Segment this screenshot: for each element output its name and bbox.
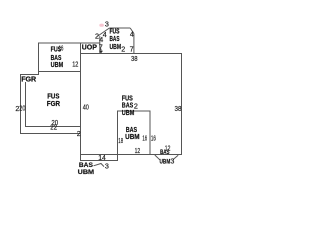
wall bottom right <box>80 153 182 155</box>
leader 7 arrow stem <box>100 49 102 51</box>
wall bay slant left <box>97 28 109 36</box>
svg-text:UBM: UBM <box>125 132 140 141</box>
wall bay slant right <box>130 28 134 34</box>
svg-text:4: 4 <box>103 30 107 39</box>
svg-text:18: 18 <box>118 136 123 145</box>
svg-text:FGR: FGR <box>21 74 37 83</box>
svg-text:16: 16 <box>59 43 64 52</box>
svg-text:4: 4 <box>99 35 103 44</box>
leader bottom right west <box>155 155 160 160</box>
svg-text:12: 12 <box>72 59 78 68</box>
wall garage top <box>20 73 39 75</box>
svg-text:7: 7 <box>130 45 134 54</box>
svg-text:UBM: UBM <box>51 60 64 69</box>
wall bay top <box>109 27 130 29</box>
svg-text:UBM: UBM <box>160 159 171 166</box>
leader bottom left 3 <box>94 164 105 167</box>
svg-text:FGR: FGR <box>47 99 61 108</box>
svg-text:UBM: UBM <box>110 42 122 51</box>
svg-text:38: 38 <box>175 104 182 113</box>
wall rect1 top and UOP top <box>38 42 100 44</box>
svg-text:38: 38 <box>131 54 138 63</box>
svg-text:3: 3 <box>170 157 174 166</box>
svg-text:UBM: UBM <box>78 169 95 176</box>
svg-text:3: 3 <box>105 19 109 28</box>
svg-text:3: 3 <box>105 161 109 170</box>
svg-text:22: 22 <box>50 123 57 132</box>
leader bottom right east <box>173 155 178 159</box>
wall main west x80 <box>80 42 82 161</box>
svg-text:BAS: BAS <box>79 162 94 169</box>
wall porch bottom left <box>80 160 118 162</box>
svg-text:UOP: UOP <box>82 43 97 52</box>
svg-text:12: 12 <box>135 146 141 155</box>
red mark near bay <box>99 24 104 27</box>
svg-text:40: 40 <box>83 103 89 112</box>
svg-text:2: 2 <box>121 45 125 54</box>
wall rect1 left <box>38 42 40 74</box>
wall center rect left <box>117 110 119 161</box>
svg-text:UBM: UBM <box>122 108 135 117</box>
svg-text:2: 2 <box>77 129 81 138</box>
wall center rect top <box>117 110 150 112</box>
wall garage inner bottom <box>25 126 81 128</box>
wall garage outer bottom <box>20 133 81 135</box>
wall east x181 <box>180 53 182 155</box>
wall rect1 bottom <box>38 70 81 72</box>
wall bay right <box>133 34 135 54</box>
svg-text:4: 4 <box>130 30 134 39</box>
wall garage inner left <box>24 82 26 127</box>
wall center rect right <box>149 110 151 155</box>
svg-text:16: 16 <box>151 133 156 142</box>
wall bay left <box>99 36 101 53</box>
arrowhead at bay corner <box>99 51 103 54</box>
svg-text:2: 2 <box>134 102 138 111</box>
svg-text:16: 16 <box>142 133 147 142</box>
svg-text:BAS: BAS <box>160 149 170 156</box>
wall long north <box>80 53 182 55</box>
svg-text:20: 20 <box>19 104 25 113</box>
wall garage outer left <box>19 74 21 134</box>
